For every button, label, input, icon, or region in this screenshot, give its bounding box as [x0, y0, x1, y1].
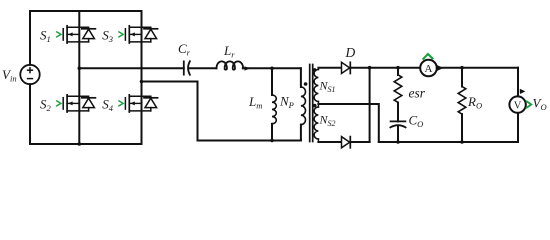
polarity dot Ns1 — [313, 68, 317, 72]
source Vin — [20, 65, 39, 84]
winding Ns1 — [317, 68, 319, 70]
junction dot Lm top — [270, 67, 274, 71]
diode D — [342, 62, 350, 73]
wire D2 cathode — [350, 141, 369, 143]
svg-text:Vin: Vin — [2, 67, 17, 84]
svg-text:S2: S2 — [40, 97, 52, 114]
node A junction dot — [78, 67, 82, 71]
svg-text:V: V — [514, 101, 522, 112]
transformer core — [309, 65, 311, 142]
svg-text:Lr: Lr — [223, 43, 235, 60]
wire D cathode to output junction — [350, 67, 420, 69]
svg-text:Cr: Cr — [178, 41, 191, 58]
wire ammeter to VO corner — [437, 67, 518, 69]
junction dot esr top — [396, 66, 400, 70]
svg-text:S1: S1 — [40, 28, 51, 45]
resistor esr — [397, 68, 399, 75]
wire bottom rail of bridge — [30, 143, 142, 145]
wire node A to Cr — [79, 67, 184, 69]
junction dot CO bottom — [396, 140, 400, 144]
wire node B return path — [142, 82, 301, 141]
junction dot RO bottom — [460, 140, 464, 144]
winding Ns2 — [317, 104, 319, 107]
svg-text:D: D — [345, 45, 356, 60]
inductor Lr — [217, 61, 244, 69]
wire Ns2 bottom to diode D2 — [318, 141, 341, 143]
svg-text:A: A — [425, 63, 433, 75]
wire leg 2 vertical — [141, 11, 143, 144]
svg-text:RO: RO — [467, 94, 482, 111]
junction dot rectifier output — [368, 66, 372, 70]
transistor S2 — [57, 95, 96, 112]
arrowhead Lr current — [245, 66, 251, 70]
wire leg 1 vertical — [78, 11, 80, 144]
transistor S1 — [57, 26, 96, 43]
polarity dot Np — [304, 82, 308, 86]
junction dot RO top — [460, 66, 464, 70]
junction dot bottom rail leg1 — [78, 142, 82, 146]
voltmeter — [509, 96, 525, 112]
wire VO branch vertical — [517, 68, 519, 97]
capacitor Cr — [183, 61, 185, 74]
wire Lr to primary top — [243, 67, 301, 69]
svg-text:NS2: NS2 — [319, 113, 336, 129]
wire Cr to Lr — [189, 67, 217, 69]
svg-text:NS1: NS1 — [319, 79, 336, 95]
transistor S3 — [119, 26, 158, 43]
wire Vin top lead — [29, 11, 31, 65]
svg-text:VO: VO — [533, 96, 547, 113]
resistor RO — [461, 68, 463, 87]
capacitor CO — [391, 120, 406, 122]
svg-text:Lm: Lm — [248, 94, 262, 111]
winding Np — [300, 68, 302, 87]
green chevron voltmeter — [527, 101, 531, 107]
polarity dot Ns2 — [313, 104, 317, 108]
wire output bottom rail — [379, 141, 518, 143]
svg-text:esr: esr — [409, 86, 426, 101]
wire top rail of bridge — [30, 10, 142, 12]
wire center tap — [318, 104, 378, 142]
inductor Lm — [271, 68, 273, 95]
svg-text:S3: S3 — [102, 28, 113, 45]
svg-text:CO: CO — [409, 113, 424, 130]
svg-text:NP: NP — [279, 94, 294, 111]
black arrowhead after ammeter — [438, 65, 444, 70]
black arrowhead into voltmeter — [520, 89, 526, 94]
green arrow ammeter — [423, 54, 432, 59]
wire Ns1 top to diode D — [318, 67, 341, 69]
node B junction dot — [140, 80, 144, 84]
svg-text:S4: S4 — [102, 97, 114, 114]
wire rectifier vertical (D2 cathode up to top rail) — [369, 68, 371, 142]
diode D2 — [342, 137, 350, 148]
wire Vin bottom lead — [29, 84, 31, 144]
junction dot Lm bottom — [270, 139, 274, 143]
transistor S4 — [119, 95, 158, 112]
ammeter — [420, 60, 437, 77]
